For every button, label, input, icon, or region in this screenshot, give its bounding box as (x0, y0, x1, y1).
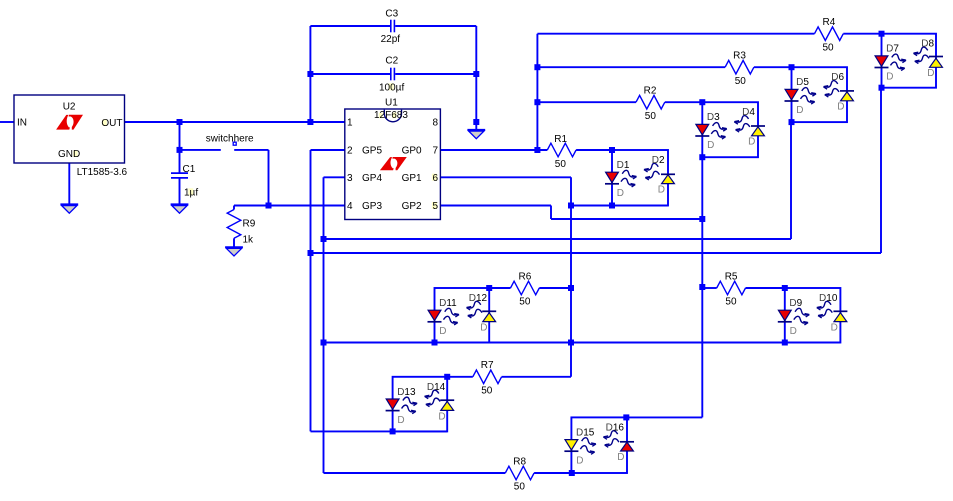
svg-text:LT1585-3.6: LT1585-3.6 (77, 167, 128, 178)
svg-text:D: D (748, 137, 755, 148)
svg-text:D1: D1 (617, 160, 630, 171)
svg-text:50: 50 (481, 385, 493, 396)
svg-text:4: 4 (347, 201, 353, 212)
svg-text:D16: D16 (606, 422, 625, 433)
svg-text:R4: R4 (823, 17, 836, 28)
svg-text:100µf: 100µf (379, 82, 404, 93)
svg-text:D15: D15 (576, 427, 595, 438)
svg-text:50: 50 (555, 159, 567, 170)
svg-text:R9: R9 (243, 219, 256, 230)
svg-text:U1: U1 (385, 97, 398, 108)
svg-text:R5: R5 (725, 271, 738, 282)
svg-text:50: 50 (735, 76, 747, 87)
svg-text:R8: R8 (513, 456, 526, 467)
svg-text:D8: D8 (921, 39, 934, 50)
svg-text:D14: D14 (427, 382, 446, 393)
svg-text:GP3: GP3 (362, 201, 382, 212)
svg-text:GP4: GP4 (362, 173, 382, 184)
svg-text:C3: C3 (385, 8, 398, 19)
svg-text:22pf: 22pf (381, 34, 401, 45)
svg-text:D: D (658, 185, 665, 196)
svg-text:R1: R1 (554, 134, 567, 145)
svg-text:D: D (439, 326, 446, 337)
svg-text:GP5: GP5 (362, 146, 382, 157)
svg-text:C1: C1 (183, 164, 196, 175)
svg-text:D: D (831, 323, 838, 334)
svg-text:D: D (576, 455, 583, 466)
svg-text:1µf: 1µf (184, 187, 198, 198)
svg-text:50: 50 (725, 297, 737, 308)
svg-text:D6: D6 (831, 72, 844, 83)
svg-text:D: D (790, 326, 797, 337)
svg-text:OUT: OUT (101, 118, 122, 129)
svg-text:D: D (707, 140, 714, 151)
svg-text:5: 5 (432, 201, 438, 212)
svg-text:D3: D3 (707, 112, 720, 123)
svg-text:R7: R7 (481, 360, 494, 371)
svg-text:7: 7 (432, 146, 438, 157)
svg-text:U2: U2 (63, 101, 76, 112)
svg-text:1k: 1k (243, 235, 255, 246)
svg-text:D12: D12 (469, 293, 488, 304)
svg-text:switchhere: switchhere (206, 134, 254, 145)
svg-text:GP0: GP0 (402, 146, 422, 157)
svg-text:50: 50 (823, 42, 835, 53)
svg-text:D: D (617, 452, 624, 463)
svg-text:D9: D9 (789, 298, 802, 309)
svg-text:D: D (837, 102, 844, 113)
svg-text:GND: GND (58, 149, 80, 160)
svg-text:D2: D2 (652, 155, 665, 166)
svg-text:D: D (480, 323, 487, 334)
svg-text:R2: R2 (644, 86, 657, 97)
svg-text:D7: D7 (886, 44, 899, 55)
svg-text:D: D (397, 415, 404, 426)
svg-text:3: 3 (347, 173, 353, 184)
svg-text:GP2: GP2 (402, 201, 422, 212)
svg-text:R6: R6 (519, 271, 532, 282)
svg-text:50: 50 (514, 482, 526, 493)
svg-text:D: D (927, 68, 934, 79)
svg-text:50: 50 (645, 111, 657, 122)
svg-text:D: D (438, 411, 445, 422)
svg-text:6: 6 (432, 173, 438, 184)
svg-text:12F683: 12F683 (374, 110, 408, 121)
svg-text:1: 1 (347, 118, 353, 129)
svg-text:D: D (617, 188, 624, 199)
svg-text:R3: R3 (733, 51, 746, 62)
svg-text:IN: IN (17, 118, 27, 129)
svg-text:2: 2 (347, 146, 353, 157)
svg-text:D11: D11 (439, 298, 457, 309)
svg-text:8: 8 (432, 118, 438, 129)
svg-text:D4: D4 (742, 107, 755, 118)
svg-text:C2: C2 (385, 55, 398, 66)
svg-text:D: D (886, 72, 893, 83)
svg-text:D13: D13 (397, 387, 416, 398)
svg-text:D10: D10 (819, 293, 838, 304)
svg-text:D: D (796, 105, 803, 116)
svg-text:D5: D5 (796, 77, 809, 88)
svg-text:50: 50 (519, 297, 531, 308)
svg-text:GP1: GP1 (402, 173, 422, 184)
